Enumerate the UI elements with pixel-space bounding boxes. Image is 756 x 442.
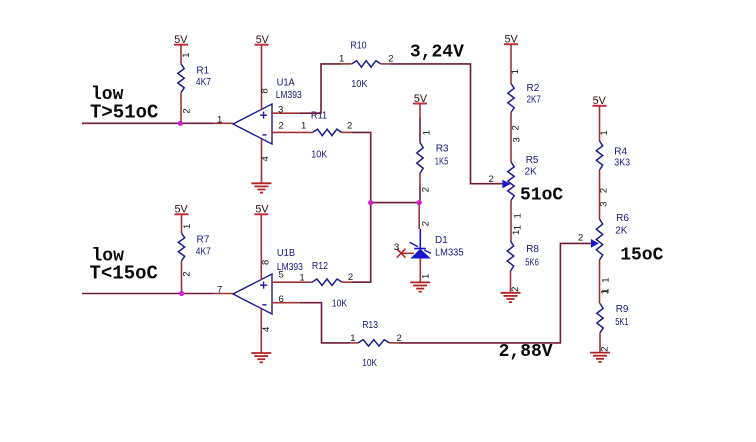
svg-text:8: 8 (261, 260, 272, 265)
ground under R9 (590, 353, 610, 362)
svg-text:2K: 2K (525, 166, 538, 177)
wire node to R3/D1 (371, 202, 420, 204)
svg-text:U1B: U1B (277, 248, 296, 259)
svg-text:R8: R8 (526, 244, 539, 255)
svg-text:1: 1 (510, 69, 521, 74)
svg-text:4: 4 (260, 156, 271, 161)
svg-text:3: 3 (599, 201, 610, 206)
svg-text:1: 1 (350, 333, 355, 344)
svg-text:1: 1 (339, 54, 344, 65)
svg-text:4K7: 4K7 (196, 77, 211, 88)
svg-text:2: 2 (420, 221, 431, 226)
svg-text:2: 2 (182, 108, 193, 113)
wire U1B pin6 to R13 (300, 303, 350, 343)
resistor R3 (417, 104, 449, 203)
wire lower main net (82, 293, 213, 295)
svg-text:U1A: U1A (277, 77, 296, 88)
svg-text:5V: 5V (255, 204, 269, 216)
potentiometer R5 (489, 155, 539, 241)
junction node upper-left (178, 121, 183, 126)
diode D1 LM335 (410, 203, 464, 283)
svg-text:2,88V: 2,88V (499, 342, 553, 362)
resistor R10 (339, 41, 394, 90)
power 5V above R3 (413, 93, 428, 105)
power 5V above R2 (504, 34, 518, 46)
svg-text:5V: 5V (256, 34, 270, 46)
potentiometer R6 (578, 213, 629, 304)
svg-text:6: 6 (279, 294, 284, 305)
svg-text:2: 2 (421, 187, 432, 192)
svg-text:2: 2 (510, 287, 521, 292)
svg-text:1: 1 (181, 52, 192, 57)
svg-text:LM393: LM393 (276, 90, 302, 101)
svg-text:R9: R9 (616, 304, 629, 315)
svg-text:2: 2 (600, 347, 611, 352)
ground under R8 (501, 293, 521, 302)
svg-text:5V: 5V (174, 34, 188, 46)
svg-text:1: 1 (512, 225, 523, 230)
wire R10 pin2 to R5 wiper (391, 64, 502, 184)
svg-text:1: 1 (182, 224, 193, 229)
no-connect X on D1 pin 3 (394, 242, 414, 258)
resistor R1 (178, 45, 211, 124)
svg-text:10K: 10K (311, 150, 327, 161)
svg-text:R7: R7 (197, 234, 210, 245)
power 5V above R4 (593, 95, 607, 107)
svg-text:1K5: 1K5 (435, 156, 449, 167)
svg-text:2: 2 (511, 125, 522, 130)
svg-text:15oC: 15oC (620, 246, 663, 266)
svg-text:R13: R13 (362, 320, 378, 331)
svg-text:7: 7 (217, 285, 222, 296)
svg-text:1: 1 (599, 130, 610, 135)
svg-text:2: 2 (599, 188, 610, 193)
svg-text:R2: R2 (527, 83, 540, 94)
resistor R11 (301, 111, 352, 161)
svg-text:T<15oC: T<15oC (90, 263, 158, 285)
svg-text:1: 1 (301, 121, 306, 132)
svg-text:3: 3 (394, 242, 399, 253)
ground under U1A (252, 183, 272, 192)
ground under U1B (251, 353, 271, 362)
svg-text:4K7: 4K7 (196, 247, 211, 258)
svg-text:R5: R5 (526, 155, 539, 166)
op-amp U1B (213, 214, 303, 353)
svg-text:1: 1 (421, 130, 432, 135)
wire U1A pin3 to R10 (300, 64, 341, 113)
svg-text:R4: R4 (614, 146, 627, 157)
svg-text:3: 3 (278, 105, 283, 116)
svg-text:2: 2 (578, 233, 583, 244)
svg-text:1: 1 (600, 289, 611, 294)
op-amp U1A (213, 45, 313, 184)
svg-text:1: 1 (299, 273, 304, 284)
svg-text:R12: R12 (312, 261, 329, 272)
ground under D1 (410, 282, 430, 291)
svg-text:1: 1 (217, 115, 222, 126)
svg-text:LM335: LM335 (435, 248, 464, 259)
resistor R4 (596, 106, 630, 219)
resistor R2 (508, 44, 541, 162)
svg-text:2: 2 (347, 121, 352, 132)
svg-text:T>51oC: T>51oC (90, 102, 158, 124)
svg-text:D1: D1 (435, 235, 448, 246)
power 5V above U1A (255, 34, 270, 46)
resistor R7 (178, 214, 211, 293)
resistor R9 (597, 289, 629, 352)
power 5V above R1 (174, 34, 188, 46)
svg-text:R1: R1 (196, 65, 209, 76)
svg-text:R10: R10 (350, 41, 367, 52)
svg-text:8: 8 (260, 88, 271, 93)
junction node lower-left (179, 291, 184, 296)
svg-text:4: 4 (261, 327, 272, 332)
svg-text:1: 1 (420, 274, 431, 279)
wire upper main net (82, 122, 213, 124)
svg-text:5V: 5V (414, 93, 428, 105)
junction node A (368, 200, 373, 205)
svg-text:1: 1 (512, 213, 523, 218)
svg-text:2: 2 (348, 272, 353, 283)
wire R11 pin2 down to node (352, 132, 371, 282)
svg-text:2: 2 (279, 121, 284, 132)
svg-text:10K: 10K (351, 79, 367, 90)
svg-text:2K: 2K (615, 225, 628, 236)
junction node B (417, 200, 422, 205)
svg-text:10K: 10K (362, 358, 377, 369)
svg-text:2K7: 2K7 (527, 94, 542, 105)
svg-text:5K1: 5K1 (615, 317, 629, 328)
svg-text:5V: 5V (505, 34, 519, 46)
svg-text:R11: R11 (311, 111, 328, 122)
svg-text:51oC: 51oC (520, 186, 563, 206)
svg-text:R6: R6 (616, 213, 629, 224)
svg-text:LM393: LM393 (277, 262, 303, 273)
svg-text:2: 2 (388, 54, 393, 65)
resistor R8 (507, 230, 539, 293)
power 5V above U1B (254, 204, 269, 216)
svg-text:3,24V: 3,24V (410, 43, 464, 63)
svg-text:1: 1 (601, 277, 612, 282)
svg-text:5K6: 5K6 (525, 258, 539, 269)
resistor R12 (299, 261, 353, 310)
svg-text:5V: 5V (175, 204, 189, 216)
svg-text:5V: 5V (593, 95, 607, 107)
svg-text:3K3: 3K3 (614, 158, 630, 169)
svg-text:1: 1 (511, 230, 522, 235)
svg-text:2: 2 (182, 271, 193, 276)
svg-text:10K: 10K (332, 299, 348, 310)
resistor R13 (350, 320, 402, 369)
power 5V above R7 (175, 204, 189, 216)
svg-text:3: 3 (511, 137, 522, 142)
wire R13 pin2 to R6 wiper (399, 243, 591, 343)
svg-text:R3: R3 (436, 144, 449, 155)
